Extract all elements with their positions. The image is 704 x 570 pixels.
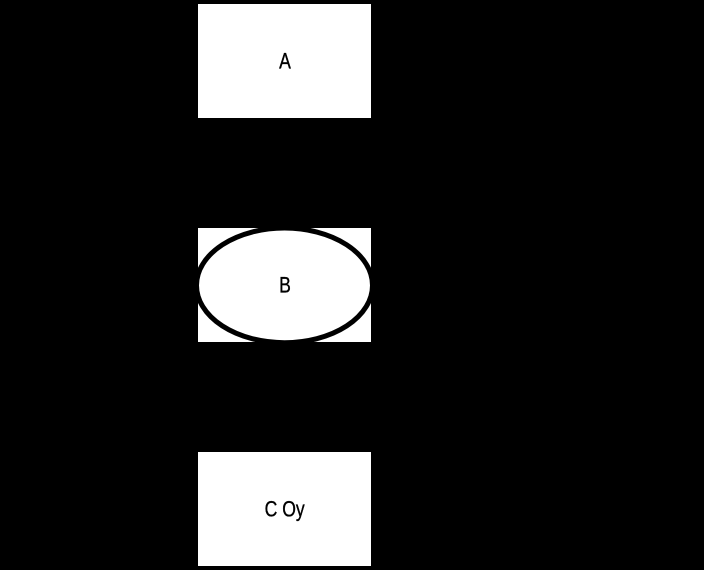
node B (rectangle containing ellipse, label "B") (198, 228, 371, 343)
ellipse outline of node B (198, 228, 371, 343)
node A (rectangle, label "A") (198, 4, 371, 118)
node C (rectangle, label "C Oy") (198, 452, 371, 566)
